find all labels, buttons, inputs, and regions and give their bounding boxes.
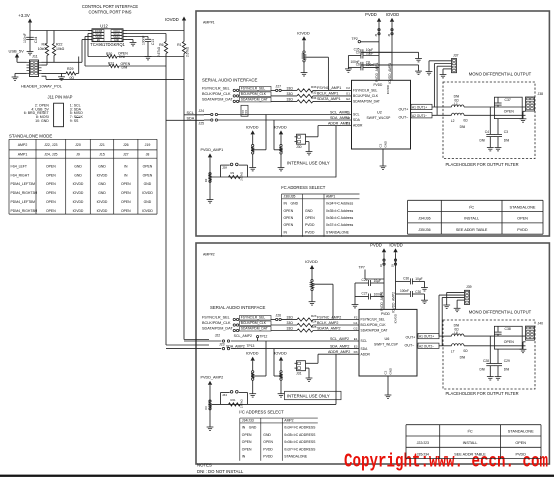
svg-text:0Ω: 0Ω <box>463 349 468 353</box>
svg-text:F2: F2 <box>346 86 350 90</box>
svg-text:OPEN: OPEN <box>46 200 56 204</box>
svg-text:R34: R34 <box>311 96 317 100</box>
svg-text:C36: C36 <box>403 277 409 281</box>
svg-text:FSYNC/LR_SEL: FSYNC/LR_SEL <box>241 87 266 91</box>
svg-text:OPEN: OPEN <box>121 200 131 204</box>
svg-text:OPEN: OPEN <box>515 441 526 445</box>
svg-text:A2 OUT1−: A2 OUT1− <box>412 114 427 118</box>
svg-text:TCA9617DGKRQ1: TCA9617DGKRQ1 <box>90 42 125 47</box>
svg-text:J26: J26 <box>123 143 129 147</box>
svg-text:F2: F2 <box>354 315 358 319</box>
svg-text:0x36=I²C Address: 0x36=I²C Address <box>326 216 353 220</box>
svg-text:D2: D2 <box>204 178 208 182</box>
svg-text:SDA_AMP2: SDA_AMP2 <box>226 344 245 348</box>
svg-text:J5: J5 <box>374 33 378 36</box>
svg-text:J27: J27 <box>276 85 282 89</box>
svg-text:C2: C2 <box>384 370 388 374</box>
svg-text:DNI: DNI <box>460 356 466 360</box>
svg-text:0x35=I²C Address: 0x35=I²C Address <box>326 209 353 213</box>
svg-text:OPEN: OPEN <box>46 164 56 168</box>
svg-text:STANDALONE: STANDALONE <box>284 455 308 459</box>
svg-text:SDATA/PDM_DAT: SDATA/PDM_DAT <box>202 97 233 101</box>
svg-text:GND: GND <box>98 164 106 168</box>
svg-text:R32: R32 <box>311 91 317 95</box>
svg-text:IOVDD: IOVDD <box>389 243 402 248</box>
svg-text:C28: C28 <box>483 359 489 363</box>
svg-text:GND: GND <box>384 141 388 148</box>
svg-text:SERIAL AUDIO INTERFACE: SERIAL AUDIO INTERFACE <box>202 77 258 82</box>
svg-text:L2: L2 <box>451 119 455 123</box>
svg-text:BCLK/PDM_CLK: BCLK/PDM_CLK <box>353 94 379 98</box>
svg-text:R6: R6 <box>159 43 164 47</box>
svg-text:TP3: TP3 <box>241 110 245 115</box>
svg-text:FSYNC/LR_SEL: FSYNC/LR_SEL <box>202 86 230 90</box>
svg-text:IOVDD: IOVDD <box>386 12 399 17</box>
svg-text:10kΩ: 10kΩ <box>38 47 47 51</box>
svg-text:HEADER_10WAY_POL: HEADER_10WAY_POL <box>21 84 63 89</box>
svg-text:OPEN: OPEN <box>121 182 131 186</box>
svg-text:GND: GND <box>144 182 152 186</box>
svg-text:STANDALONE MODE: STANDALONE MODE <box>9 134 52 139</box>
svg-text:STANDALONE: STANDALONE <box>326 230 350 234</box>
svg-text:AMP2: AMP2 <box>18 143 28 147</box>
svg-text:OUT−: OUT− <box>405 344 415 348</box>
svg-text:10kΩ: 10kΩ <box>56 47 65 51</box>
svg-text:TP4: TP4 <box>244 110 248 115</box>
svg-text:DNI: DNI <box>119 55 125 59</box>
svg-text:J22, J23: J22, J23 <box>44 143 57 147</box>
svg-text:ADDR: ADDR <box>361 352 371 356</box>
svg-text:0x36=I²C ADDRESS: 0x36=I²C ADDRESS <box>284 440 316 444</box>
svg-text:OPEN: OPEN <box>284 223 294 227</box>
svg-text:J23: J23 <box>219 343 225 347</box>
svg-text:2.67kΩ: 2.67kΩ <box>157 46 161 57</box>
svg-text:OPEN: OPEN <box>504 110 514 114</box>
svg-text:J38: J38 <box>538 92 544 96</box>
svg-text:U2: U2 <box>377 110 382 114</box>
svg-text:C13: C13 <box>151 39 155 45</box>
svg-text:100nF: 100nF <box>350 60 359 64</box>
svg-text:100nF: 100nF <box>374 292 383 296</box>
svg-text:IN: IN <box>124 164 128 168</box>
svg-text:C30: C30 <box>415 290 421 294</box>
svg-text:FSYNC/LR_SEL: FSYNC/LR_SEL <box>202 315 230 319</box>
svg-text:J24: J24 <box>199 109 205 113</box>
svg-text:R24: R24 <box>311 320 317 324</box>
svg-text:BCLK_AMP1: BCLK_AMP1 <box>317 92 338 96</box>
svg-text:J6: J6 <box>387 33 391 36</box>
svg-text:PVDD: PVDD <box>517 228 528 232</box>
svg-text:GND: GND <box>263 433 271 437</box>
svg-text:100nF: 100nF <box>142 36 146 45</box>
svg-text:C27: C27 <box>362 292 368 296</box>
svg-text:CONTROL PORT INTERFACE: CONTROL PORT INTERFACE <box>82 4 139 9</box>
svg-text:J21: J21 <box>99 143 105 147</box>
svg-text:OPEN: OPEN <box>504 340 514 344</box>
svg-text:IOVDD: IOVDD <box>97 200 108 204</box>
svg-text:C8: C8 <box>366 61 370 65</box>
svg-text:SCL: SCL <box>353 113 360 117</box>
svg-text:OPEN: OPEN <box>242 433 252 437</box>
svg-text:DNI: DNI <box>480 368 486 372</box>
svg-text:0Ω: 0Ω <box>463 118 468 122</box>
svg-text:OPEN: OPEN <box>517 217 528 221</box>
svg-text:R23: R23 <box>311 314 317 318</box>
svg-text:INTERNAL USE ONLY: INTERNAL USE ONLY <box>287 160 330 165</box>
svg-text:J40: J40 <box>538 321 544 325</box>
svg-text:E1: E1 <box>354 337 358 341</box>
svg-text:SEE ADDR TABLE: SEE ADDR TABLE <box>454 452 486 456</box>
svg-text:J31: J31 <box>296 371 302 375</box>
svg-text:J20: J20 <box>75 143 81 147</box>
svg-text:ADDR: ADDR <box>353 124 363 128</box>
svg-text:R31: R31 <box>108 61 114 65</box>
svg-text:C29: C29 <box>504 359 510 363</box>
svg-text:TP2: TP2 <box>352 37 358 41</box>
svg-text:I²C: I²C <box>469 204 474 209</box>
svg-text:INSTALL: INSTALL <box>463 441 478 445</box>
svg-text:GND: GND <box>98 191 106 195</box>
svg-text:33Ω: 33Ω <box>287 97 294 101</box>
svg-text:PVDD_AMP1: PVDD_AMP1 <box>375 62 379 82</box>
svg-text:OPEN: OPEN <box>263 440 273 444</box>
svg-text:10µF: 10µF <box>366 48 373 52</box>
svg-text:GND: GND <box>98 182 106 186</box>
svg-text:OUT−: OUT− <box>399 116 409 120</box>
svg-text:AMP#1: AMP#1 <box>203 21 215 25</box>
svg-text:E3: E3 <box>346 116 350 120</box>
svg-text:SDA_AMP2: SDA_AMP2 <box>330 345 349 349</box>
svg-text:U6: U6 <box>385 337 390 341</box>
svg-text:OPEN: OPEN <box>143 164 153 168</box>
svg-text:ADDR_AMP2: ADDR_AMP2 <box>328 350 350 354</box>
svg-text:33Ω: 33Ω <box>287 316 294 320</box>
svg-text:PDM4_LEFT8M: PDM4_LEFT8M <box>11 200 36 204</box>
svg-text:E3: E3 <box>354 345 358 349</box>
svg-text:J22/J23: J22/J23 <box>417 441 429 445</box>
svg-text:PDM4_RIGHT3M: PDM4_RIGHT3M <box>11 191 38 195</box>
svg-text:OPEN: OPEN <box>143 173 153 177</box>
svg-text:PVDD: PVDD <box>365 12 377 17</box>
svg-text:IOVDD: IOVDD <box>142 191 153 195</box>
svg-text:R30: R30 <box>106 52 112 56</box>
svg-text:INTERNAL USE ONLY: INTERNAL USE ONLY <box>287 393 330 398</box>
svg-text:BCLK/PDM_CLK: BCLK/PDM_CLK <box>361 323 387 327</box>
svg-text:D3: D3 <box>354 350 358 354</box>
svg-text:OPEN: OPEN <box>284 209 294 213</box>
svg-text:IOVDD: IOVDD <box>274 124 287 129</box>
svg-text:OPEN: OPEN <box>46 173 56 177</box>
svg-text:R1: R1 <box>177 43 182 47</box>
svg-text:IN: IN <box>242 426 246 430</box>
svg-text:IOVDD: IOVDD <box>246 124 259 129</box>
svg-text:IOVDD: IOVDD <box>73 209 84 213</box>
svg-text:PLACEHOLDER FOR OUTPUT FILTER: PLACEHOLDER FOR OUTPUT FILTER <box>445 162 518 167</box>
svg-text:GND: GND <box>74 173 82 177</box>
svg-text:R25: R25 <box>311 325 317 329</box>
svg-text:IOVDD: IOVDD <box>142 209 153 213</box>
svg-text:BCLK_AMP2: BCLK_AMP2 <box>317 321 338 325</box>
svg-text:A2 OUT2−: A2 OUT2− <box>419 344 434 348</box>
svg-text:GND: GND <box>305 209 313 213</box>
svg-text:PVDD_AMP1: PVDD_AMP1 <box>201 148 224 152</box>
svg-text:C4: C4 <box>485 130 489 134</box>
svg-text:OPEN: OPEN <box>305 216 315 220</box>
svg-text:PVDD: PVDD <box>370 243 382 248</box>
svg-text:2.67kΩ: 2.67kΩ <box>240 172 244 181</box>
svg-text:FSYNC/LR_SEL: FSYNC/LR_SEL <box>241 316 266 320</box>
svg-text:FSYNC/LR_SEL: FSYNC/LR_SEL <box>361 318 386 322</box>
svg-text:DNI: DNI <box>460 125 466 129</box>
svg-text:NOTES: NOTES <box>197 463 212 468</box>
svg-text:IOVDD: IOVDD <box>297 30 310 35</box>
svg-text:IOVDD: IOVDD <box>73 200 84 204</box>
svg-text:0x34=I²C ADDRESS: 0x34=I²C ADDRESS <box>284 426 316 430</box>
svg-text:OPEN: OPEN <box>46 191 56 195</box>
svg-text:G1: G1 <box>346 92 350 96</box>
svg-text:OPEN: OPEN <box>46 209 56 213</box>
svg-text:R9: R9 <box>231 171 235 175</box>
svg-text:DNI: DNI <box>122 65 128 69</box>
svg-text:J19: J19 <box>145 143 151 147</box>
svg-text:C2: C2 <box>379 143 383 147</box>
svg-text:GND: GND <box>74 164 82 168</box>
svg-text:GND: GND <box>144 200 152 204</box>
svg-text:J35/J34: J35/J34 <box>417 452 429 456</box>
svg-text:AMP#2: AMP#2 <box>203 253 215 257</box>
svg-text:2.67kΩ: 2.67kΩ <box>240 399 244 408</box>
svg-text:SDATA/PDM_DAT: SDATA/PDM_DAT <box>353 100 380 104</box>
svg-text:BCLK/PDM_CLK: BCLK/PDM_CLK <box>241 321 267 325</box>
svg-text:OPEN: OPEN <box>46 182 56 186</box>
svg-text:SDA: SDA <box>361 347 369 351</box>
svg-text:G2: G2 <box>353 326 357 330</box>
svg-text:+3.3V: +3.3V <box>18 13 30 18</box>
svg-text:IN: IN <box>284 230 288 234</box>
svg-text:IOVDD: IOVDD <box>73 182 84 186</box>
svg-text:C37: C37 <box>505 98 511 102</box>
svg-text:AMP1: AMP1 <box>18 152 28 156</box>
svg-text:OPEN: OPEN <box>284 216 294 220</box>
svg-text:FSYNC/LR_SEL: FSYNC/LR_SEL <box>353 89 378 93</box>
svg-text:PDM4_RIGHT8M: PDM4_RIGHT8M <box>11 209 38 213</box>
svg-text:G1: G1 <box>353 321 357 325</box>
svg-text:J25: J25 <box>199 121 205 125</box>
svg-text:R33: R33 <box>311 85 317 89</box>
svg-text:J8: J8 <box>379 264 383 267</box>
svg-text:0x37=I²C Address: 0x37=I²C Address <box>326 223 353 227</box>
svg-text:OPEN: OPEN <box>121 209 131 213</box>
svg-text:TP7: TP7 <box>359 265 365 269</box>
svg-text:CONTROL PORT PINS: CONTROL PORT PINS <box>89 9 132 14</box>
svg-text:J9: J9 <box>390 264 394 267</box>
svg-text:J37: J37 <box>453 53 459 57</box>
svg-text:J24, J25: J24, J25 <box>44 152 57 156</box>
svg-text:SWIFT_WLCSP: SWIFT_WLCSP <box>367 116 392 120</box>
svg-text:FSYNC_AMP1: FSYNC_AMP1 <box>317 86 341 90</box>
svg-text:TP13: TP13 <box>247 344 255 348</box>
svg-text:IN: IN <box>242 455 246 459</box>
svg-text:A1 OUT2+: A1 OUT2+ <box>419 335 434 339</box>
svg-text:SDATA/PDM_DAT: SDATA/PDM_DAT <box>241 98 268 102</box>
svg-text:C3: C3 <box>504 130 508 134</box>
svg-text:IOVDD: IOVDD <box>97 209 108 213</box>
svg-text:R29: R29 <box>67 67 73 71</box>
svg-text:BCLK/PDM_CLK: BCLK/PDM_CLK <box>241 92 267 96</box>
svg-text:SDA: SDA <box>353 118 361 122</box>
svg-text:STANDALONE: STANDALONE <box>508 429 534 434</box>
svg-text:G2: G2 <box>346 97 350 101</box>
svg-text:100nF: 100nF <box>400 289 409 293</box>
svg-text:33Ω: 33Ω <box>287 321 294 325</box>
svg-text:TP12: TP12 <box>260 335 268 339</box>
svg-text:SERIAL AUDIO INTERFACE: SERIAL AUDIO INTERFACE <box>210 305 266 310</box>
svg-text:R21: R21 <box>231 398 236 402</box>
svg-text:DNI : DO NOT INSTALL: DNI : DO NOT INSTALL <box>197 469 244 474</box>
svg-text:GND: GND <box>389 368 393 375</box>
svg-text:IOVDD: IOVDD <box>274 351 287 356</box>
svg-text:0x35=I²C ADDRESS: 0x35=I²C ADDRESS <box>284 433 316 437</box>
svg-text:USB_5V: USB_5V <box>9 48 25 53</box>
svg-text:J22: J22 <box>215 333 221 337</box>
svg-text:PLACEHOLDER FOR OUTPUT FILTER: PLACEHOLDER FOR OUTPUT FILTER <box>445 391 518 396</box>
svg-text:J11 PIN MAP: J11 PIN MAP <box>48 94 73 99</box>
svg-text:PVDD: PVDD <box>305 230 315 234</box>
svg-text:PVDD: PVDD <box>381 312 391 316</box>
svg-text:SCL_AMP2: SCL_AMP2 <box>234 334 252 338</box>
svg-text:0x37=I²C ADDRESS: 0x37=I²C ADDRESS <box>284 447 316 451</box>
svg-text:SDATA/PDM_DAT: SDATA/PDM_DAT <box>361 329 388 333</box>
svg-text:J9: J9 <box>76 152 80 156</box>
svg-text:STANDALONE: STANDALONE <box>510 204 536 209</box>
svg-text:BCLK/PDM_CLK: BCLK/PDM_CLK <box>202 321 231 325</box>
svg-text:SEE ADDR TABLE: SEE ADDR TABLE <box>456 228 488 232</box>
svg-text:IOVDD: IOVDD <box>246 351 259 356</box>
svg-text:SCL: SCL <box>361 339 368 343</box>
svg-text:MONO DIFFERENTIAL OUTPUT: MONO DIFFERENTIAL OUTPUT <box>469 72 532 77</box>
svg-text:33Ω: 33Ω <box>287 86 294 90</box>
svg-text:C34: C34 <box>34 37 38 43</box>
svg-text:GND: GND <box>291 202 299 206</box>
svg-text:SWIFT_WLCSP: SWIFT_WLCSP <box>374 343 399 347</box>
svg-text:IOVDD: IOVDD <box>394 314 398 323</box>
svg-text:IN: IN <box>124 173 128 177</box>
svg-text:I²S4_LEFT: I²S4_LEFT <box>11 164 27 168</box>
svg-text:I²C ADDRESS SELECT: I²C ADDRESS SELECT <box>281 185 326 190</box>
svg-text:I²C: I²C <box>467 429 472 434</box>
svg-text:INSTALL: INSTALL <box>464 217 479 221</box>
svg-text:IN: IN <box>284 202 288 206</box>
svg-text:J34/J33: J34/J33 <box>242 419 254 423</box>
svg-text:J26: J26 <box>276 314 282 318</box>
svg-text:PVDD: PVDD <box>305 223 315 227</box>
svg-text:J35/J36: J35/J36 <box>418 228 430 232</box>
svg-text:DNI: DNI <box>504 368 510 372</box>
svg-text:FSYNC_AMP2: FSYNC_AMP2 <box>317 315 341 319</box>
svg-text:J34: J34 <box>222 393 227 397</box>
svg-text:I²C ADDRESS SELECT: I²C ADDRESS SELECT <box>239 409 284 414</box>
svg-text:PVDD: PVDD <box>515 452 526 456</box>
svg-text:PVDD: PVDD <box>263 455 273 459</box>
svg-text:MONO DIFFERENTIAL OUTPUT: MONO DIFFERENTIAL OUTPUT <box>469 310 532 315</box>
svg-text:SDATA_AMP1: SDATA_AMP1 <box>317 97 341 101</box>
svg-text:SDATA/PDM_DAT: SDATA/PDM_DAT <box>241 327 268 331</box>
svg-text:BCLK/PDM_CLK: BCLK/PDM_CLK <box>202 92 231 96</box>
svg-text:J15: J15 <box>99 152 105 156</box>
svg-text:AMP1: AMP1 <box>326 194 335 198</box>
svg-text:IOVDD: IOVDD <box>386 85 390 94</box>
svg-text:J39: J39 <box>466 285 472 289</box>
svg-text:PVDD: PVDD <box>374 83 384 87</box>
svg-text:100nF: 100nF <box>23 33 27 43</box>
svg-text:2.67kΩ: 2.67kΩ <box>186 46 190 57</box>
svg-text:IOVDD: IOVDD <box>305 259 318 264</box>
svg-text:OUT+: OUT+ <box>399 107 409 111</box>
svg-text:I²S4_RIGHT: I²S4_RIGHT <box>11 173 30 177</box>
svg-text:U12: U12 <box>100 24 108 29</box>
svg-text:J27: J27 <box>123 152 129 156</box>
svg-text:IOVDD: IOVDD <box>165 17 179 22</box>
svg-text:A1 OUT1+: A1 OUT1+ <box>412 106 427 110</box>
svg-text:OPEN: OPEN <box>242 440 252 444</box>
svg-text:10µF: 10µF <box>415 277 422 281</box>
svg-text:PDM4_LEFT3M: PDM4_LEFT3M <box>11 182 36 186</box>
svg-text:J30: J30 <box>296 145 302 149</box>
svg-text:SDATA/PDM_DAT: SDATA/PDM_DAT <box>202 326 233 330</box>
svg-text:GND: GND <box>249 426 257 430</box>
svg-text:OUT+: OUT+ <box>406 335 416 339</box>
svg-text:J34/J36: J34/J36 <box>418 217 430 221</box>
svg-text:IOVDD: IOVDD <box>73 191 84 195</box>
svg-text:J28: J28 <box>222 166 227 170</box>
svg-text:33Ω: 33Ω <box>287 327 294 331</box>
svg-text:AMP2: AMP2 <box>284 419 293 423</box>
svg-text:IOVDD: IOVDD <box>97 173 108 177</box>
svg-text:SCL_AMP2: SCL_AMP2 <box>330 337 349 341</box>
svg-text:9: SS: 9: SS <box>70 119 79 123</box>
svg-text:J36/J35: J36/J35 <box>284 194 296 198</box>
svg-text:C35: C35 <box>354 48 360 52</box>
svg-text:DNI: DNI <box>504 139 510 143</box>
svg-text:PVDD_AMP2: PVDD_AMP2 <box>201 376 224 380</box>
svg-text:PVDD: PVDD <box>263 447 273 451</box>
svg-text:SDATA_AMP2: SDATA_AMP2 <box>317 326 341 330</box>
svg-text:D3: D3 <box>346 121 350 125</box>
svg-text:DNI: DNI <box>480 139 486 143</box>
svg-text:10: GND: 10: GND <box>35 119 49 123</box>
svg-text:OPEN: OPEN <box>121 191 131 195</box>
svg-text:E1: E1 <box>346 110 350 114</box>
svg-text:C38: C38 <box>505 327 511 331</box>
svg-text:33Ω: 33Ω <box>287 92 294 96</box>
svg-text:0x34=I²C Address: 0x34=I²C Address <box>326 202 353 206</box>
svg-text:OPEN: OPEN <box>242 447 252 451</box>
svg-text:L7: L7 <box>451 350 455 354</box>
svg-text:D4: D4 <box>204 406 208 410</box>
svg-text:J11: J11 <box>32 55 38 59</box>
svg-text:J8: J8 <box>146 152 150 156</box>
